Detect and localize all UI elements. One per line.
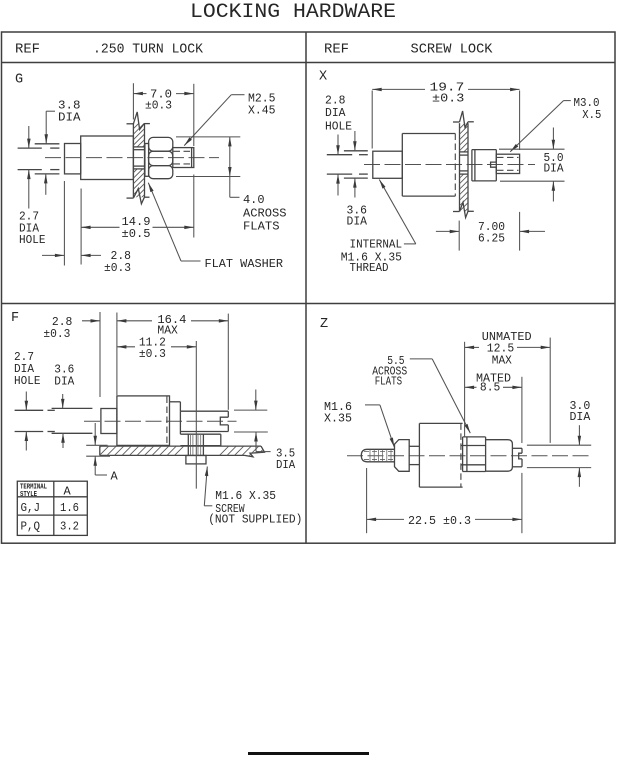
svg-text:FLATS: FLATS <box>243 219 280 233</box>
svg-text:4.0: 4.0 <box>243 193 265 207</box>
svg-text:22.5 ±0.3: 22.5 ±0.3 <box>408 514 471 528</box>
Z unmated extension lines <box>464 342 466 437</box>
svg-text:±0.3: ±0.3 <box>104 261 131 275</box>
Z body <box>418 423 420 487</box>
svg-text:DIA: DIA <box>325 106 346 120</box>
svg-text:REF: REF <box>324 43 349 58</box>
Z dim 3.0 arrows <box>578 425 580 445</box>
F body <box>117 396 170 446</box>
F centerline <box>84 420 237 422</box>
X dim 19.7 extension lines <box>371 91 373 149</box>
svg-text:THREAD: THREAD <box>350 261 389 275</box>
G panel edges <box>132 123 134 197</box>
X 3.6 dia silhouette lines <box>344 150 368 152</box>
svg-text:HOLE: HOLE <box>19 233 46 247</box>
svg-text:X.35: X.35 <box>324 412 352 426</box>
F screw shank through board <box>187 434 189 456</box>
Z dim 3.0 extension lines <box>527 444 591 446</box>
F dim 2.8 line <box>82 320 100 322</box>
svg-text:6.25: 6.25 <box>478 232 505 246</box>
svg-text:FLAT WASHER: FLAT WASHER <box>205 257 284 271</box>
svg-text:.250 TURN LOCK: .250 TURN LOCK <box>93 43 204 58</box>
X dim 2.8 hole arrows <box>337 135 339 155</box>
F shared extension line at body left <box>116 313 118 396</box>
Z contact pin with slot <box>512 447 522 449</box>
F body step <box>170 401 181 403</box>
F leader M1.6 screw <box>204 505 212 507</box>
Z dim 8.5 line <box>465 386 477 388</box>
svg-text:±0.3: ±0.3 <box>43 327 70 341</box>
X dim 19.7 line <box>372 88 425 90</box>
X centerline <box>364 164 535 166</box>
svg-text:FLATS: FLATS <box>375 374 402 388</box>
svg-text:ACROSS: ACROSS <box>243 206 287 220</box>
svg-text:±0.3: ±0.3 <box>145 98 172 112</box>
F jack notch <box>220 417 228 425</box>
G threaded stud M2.5 <box>173 148 194 168</box>
svg-text:3.2: 3.2 <box>60 519 79 533</box>
X leader M3.0 X.5 <box>564 100 571 102</box>
F dim 16.4 right extension <box>227 314 229 410</box>
drawing frame border <box>2 32 616 543</box>
Z leader 5.5 across flats <box>410 358 432 360</box>
X threaded stud M3.0 <box>496 154 519 173</box>
Z hex collar left <box>395 440 410 472</box>
Z dim 22.5 line <box>367 518 404 520</box>
Z mating collar <box>462 437 464 472</box>
horizontal quadrant divider <box>2 303 616 305</box>
svg-text:STYLE: STYLE <box>20 491 37 499</box>
X panel edges <box>459 123 461 211</box>
svg-text:DIA: DIA <box>347 214 368 228</box>
svg-text:HOLE: HOLE <box>14 374 41 388</box>
F dim 16.4 line <box>117 320 152 322</box>
svg-text:X: X <box>319 69 327 84</box>
svg-text:A: A <box>64 484 72 498</box>
G panel break bottom <box>127 197 134 199</box>
svg-text:G: G <box>15 73 23 88</box>
G 3.8 dia silhouette lines <box>35 143 60 145</box>
svg-text:DIA: DIA <box>54 374 75 388</box>
G dim 2.7 hole arrows <box>28 126 30 148</box>
F dim 2.7 hole arrows <box>25 392 27 411</box>
X dim 7.00 6.25 arrows <box>436 230 459 232</box>
X 2.8 hole hidden lines <box>327 154 352 156</box>
F lead terminal <box>101 409 117 434</box>
X lead cylinder <box>373 151 403 178</box>
F 2.7 hole hidden lines <box>15 409 44 411</box>
F jack plate <box>180 410 228 412</box>
F dim 3.5 extension lines <box>234 409 267 411</box>
F dim 11.2 right extension through screw axis <box>195 341 197 489</box>
svg-text:±0.5: ±0.5 <box>122 227 151 241</box>
G dim 4.0 across flats <box>176 136 240 138</box>
Z dim 12.5 line <box>465 346 479 348</box>
F 3.6 dia silhouette lines <box>52 407 93 409</box>
F dim 11.2 line <box>117 346 135 348</box>
F dim 2.8 extension line at lead tip <box>99 312 101 397</box>
G leader M2.5 X.45 <box>231 94 244 96</box>
svg-text:DIA: DIA <box>58 111 81 125</box>
svg-text:A: A <box>111 469 119 483</box>
X screw head <box>471 150 473 181</box>
X dim 7.00 6.25 extension lines <box>458 221 460 251</box>
G hex nut pills <box>149 137 173 151</box>
svg-text:P,Q: P,Q <box>21 519 41 533</box>
svg-text:HOLE: HOLE <box>325 119 352 133</box>
F dim 3.6 arrows <box>62 394 64 408</box>
X shaft lines through panel <box>460 151 469 153</box>
svg-text:DIA: DIA <box>544 162 565 176</box>
X leader INTERNAL thread <box>404 243 416 245</box>
Z threaded pin M1.6 <box>361 449 394 462</box>
Z neck <box>409 445 419 447</box>
Z pin minor diameter dashes <box>364 451 395 453</box>
G lead cylinder <box>65 144 81 174</box>
G dim 14.9 extension lines <box>63 181 65 266</box>
X body cylinder <box>401 134 403 197</box>
svg-text:G,J: G,J <box>21 501 41 515</box>
F body hidden line <box>166 397 168 445</box>
X panel break bottom <box>453 211 460 213</box>
G dim 7.0 line <box>133 93 146 95</box>
F mounting foot <box>180 433 220 435</box>
G dim 3.8 DIA arrows and leader <box>45 111 47 144</box>
svg-text:8.5: 8.5 <box>480 381 500 395</box>
svg-text:DIA: DIA <box>276 458 296 472</box>
Z centerline <box>347 455 592 457</box>
X dim 5.0 extension lines <box>499 148 565 150</box>
G dim 2.8 line <box>42 254 64 256</box>
F pcb board <box>100 445 261 447</box>
svg-text:1.6: 1.6 <box>60 501 79 515</box>
Z leader M1.6 X.35 <box>365 404 380 406</box>
svg-text:(NOT SUPPLIED): (NOT SUPPLIED) <box>208 512 302 526</box>
Z dim 22.5 extension line left <box>366 468 368 533</box>
Z plug section <box>486 440 513 472</box>
bottom page mark bar <box>248 752 369 755</box>
X panel break top <box>453 121 460 123</box>
svg-text:X.45: X.45 <box>248 104 276 118</box>
svg-text:DIA: DIA <box>570 410 592 424</box>
G dim 7.0 extension lines <box>132 83 134 119</box>
F terminal style table <box>17 481 87 535</box>
svg-text:REF: REF <box>15 43 40 58</box>
X screw slot notch <box>491 162 497 167</box>
svg-text:MAX: MAX <box>492 354 512 368</box>
X body hidden right face <box>454 134 456 197</box>
F dim A arrows <box>94 423 96 445</box>
svg-text:±0.3: ±0.3 <box>432 91 464 105</box>
F dim A extension lines <box>86 444 107 446</box>
G panel break top <box>127 123 134 125</box>
Z body hidden right face <box>460 423 462 487</box>
G shaft lines through panel <box>133 146 144 148</box>
svg-text:±0.3: ±0.3 <box>139 347 166 361</box>
X dim 5.0 arrows <box>552 128 554 150</box>
G dim 14.9 line <box>81 226 119 228</box>
Z pin thread ticks <box>369 450 371 462</box>
G 2.7 hole hidden lines <box>18 147 42 149</box>
vertical quadrant divider <box>305 32 307 543</box>
Z mated extension line right <box>521 377 523 443</box>
header row divider <box>2 62 616 64</box>
svg-text:F: F <box>11 311 19 326</box>
F screw head below board <box>186 456 206 464</box>
G flat washer <box>145 144 149 177</box>
svg-text:LOCKING HARDWARE: LOCKING HARDWARE <box>190 1 396 24</box>
X dim 3.6 arrows <box>354 131 356 151</box>
svg-text:M1.6 X.35: M1.6 X.35 <box>215 489 276 503</box>
G leader FLAT WASHER <box>181 260 201 262</box>
svg-text:SCREW LOCK: SCREW LOCK <box>411 43 494 58</box>
G centerline <box>45 157 219 159</box>
svg-text:X.5: X.5 <box>582 108 601 122</box>
svg-text:Z: Z <box>320 317 328 332</box>
G body cylinder <box>81 136 134 180</box>
F dim 3.5 arrows <box>255 390 257 411</box>
